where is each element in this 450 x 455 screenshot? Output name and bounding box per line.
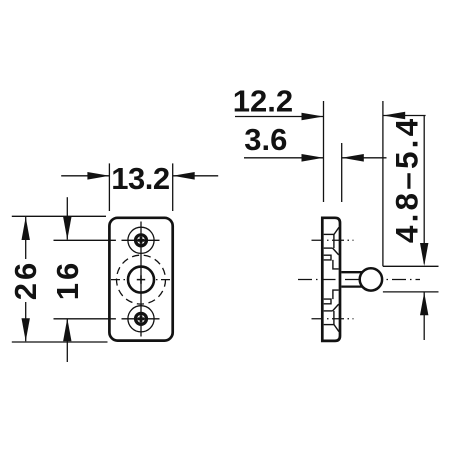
side view: plate profile — [322, 218, 340, 341]
svg-text:3.6: 3.6 — [244, 122, 287, 157]
dim 26: extension lines — [12, 215, 106, 217]
side view: ball stud stem — [341, 271, 362, 273]
dim 16: dimension shafts — [66, 197, 68, 239]
side view: internal section lines (top half) — [324, 233, 334, 235]
dim 16: arrowheads — [63, 217, 71, 240]
svg-text:4.8–5.4: 4.8–5.4 — [389, 116, 425, 244]
dim 13.2: arrowheads — [87, 172, 109, 180]
dim 26: arrowheads — [22, 217, 30, 240]
dim 26: dimension line — [25, 217, 27, 259]
svg-text:26: 26 — [8, 260, 43, 300]
side view: ball — [360, 268, 382, 290]
side view extension lines — [323, 101, 325, 202]
front view: top screw hole — [136, 235, 147, 246]
side view: internal section lines (bottom half) — [333, 290, 339, 299]
dim 13.2: extension lines — [108, 163, 110, 211]
side view: middle centerline through ball — [298, 279, 420, 281]
front view: bottom hole centerline (16 extension) — [54, 318, 116, 320]
side view: top hole centerline — [312, 239, 354, 241]
front view: top hole centerline (16 extension) — [54, 239, 116, 241]
front view: bottom screw hole — [136, 313, 147, 324]
dim 13.2: dimension lines — [61, 175, 109, 177]
front view: mounting plate outline — [109, 218, 172, 341]
front view: middle hole crosshair — [137, 275, 145, 283]
svg-text:16: 16 — [50, 260, 85, 300]
dim 12.2: dimension line + arrows — [235, 116, 324, 118]
dim 4.8-5.4: dimension line + arrows — [423, 116, 425, 264]
front view: middle hole — [128, 267, 154, 293]
front view: vertical centerline — [140, 222, 142, 337]
dim 4.8-5.4: extension lines — [383, 265, 439, 267]
side view: bottom hole centerline — [312, 318, 354, 320]
svg-text:13.2: 13.2 — [111, 161, 169, 196]
front view: middle hole dashed circle — [117, 255, 166, 304]
svg-text:12.2: 12.2 — [233, 84, 293, 119]
dim 3.6: dimension line + arrows — [244, 157, 324, 159]
